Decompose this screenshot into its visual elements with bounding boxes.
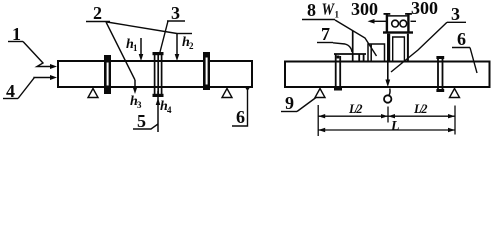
tower post right [405,14,412,34]
svg-text:2: 2 [189,41,194,51]
svg-text:1: 1 [335,10,340,20]
stand inner bracket [393,37,405,62]
svg-text:8: 8 [307,0,316,20]
leader 6 left [232,88,248,126]
dimension extension line middle [387,107,389,123]
label 3 left [171,3,180,23]
shaft left rotor body [58,61,252,87]
dimension extension line right [454,106,456,135]
measurement arrow h2 [175,34,192,62]
svg-text:3: 3 [451,4,460,24]
dimension line L [318,128,455,132]
dimension extension line left [317,105,319,136]
dimension 300 right text [411,0,438,18]
motor block [368,44,385,62]
label W1 [322,0,340,20]
leader 6 right underline [452,47,470,49]
leader 9 underline [281,111,297,113]
svg-text:L/2: L/2 [348,102,363,116]
disc 3 [203,52,210,90]
svg-text:L/2: L/2 [413,102,428,116]
disc 1 [104,55,111,94]
leader 3 right underline [447,21,466,23]
dimension 300 line right stub [411,20,417,22]
leader 7 [317,42,333,44]
tower pulley circle right [400,20,407,27]
leader 3 underline [167,20,185,22]
label 8 [307,0,316,20]
svg-text:L: L [390,119,400,134]
label 7 [321,24,330,44]
tower box top edge [388,15,407,17]
svg-text:W: W [322,0,336,19]
bearing pedestal 2 [436,56,444,92]
label 9 [285,93,294,113]
svg-text:6: 6 [236,107,245,127]
label 2 [93,3,102,23]
leader 4 underline [3,98,18,100]
svg-text:6: 6 [457,29,466,49]
leader 5 underline [133,124,158,129]
svg-text:4: 4 [167,105,172,115]
leader 3 diagonal [160,21,168,52]
measurement arrow h3 [133,80,138,94]
leader 8 underline [302,19,335,21]
support triangle A [88,89,98,98]
leader 6 right diagonal [470,48,477,74]
measurement arrow h4 [156,91,161,132]
leader 4 diagonal [18,78,51,99]
shaft right rotor body [285,62,490,88]
bearing pedestal 1 [334,54,342,91]
leader 8 diagonal [335,20,377,56]
support triangle D [450,89,460,98]
disc 2 [153,52,164,97]
svg-text:3: 3 [171,3,180,23]
dimension line L/2 L/2 [318,114,455,118]
leader 2 line B across shaft [106,22,135,80]
pole on platform [352,31,354,62]
leader 1 underline [8,41,23,43]
leader 1 diagonal [23,42,51,67]
label 5 [137,111,146,131]
tower post left [384,14,391,34]
support triangle B [222,89,232,98]
label 4 [6,81,15,101]
dimension 300 left text [351,0,378,19]
svg-text:7: 7 [321,24,330,44]
label 6 left [236,107,245,127]
svg-text:300: 300 [411,0,438,18]
leader 2 line A to h2 stem [107,22,177,34]
svg-text:2: 2 [93,3,102,23]
svg-text:9: 9 [285,93,294,113]
arrow 4 head [50,75,57,80]
stand outer walls [389,34,408,62]
svg-text:300: 300 [351,0,378,19]
tower pulley circle left [392,20,399,27]
label 1 [12,24,21,44]
label h1 [126,37,138,53]
support triangle C [315,89,325,98]
label h3 [130,94,142,110]
label h4 [160,99,172,115]
dimension 300 line left [368,19,388,24]
dimension text L [390,119,400,134]
force line W with arrow [385,34,390,87]
label 3 right [451,4,460,24]
label h2 [182,35,194,51]
svg-text:3: 3 [137,100,142,110]
dimension text L/2 right [413,102,428,116]
arrow 1 head [50,64,57,69]
label 6 right [457,29,466,49]
svg-text:5: 5 [137,111,146,131]
hanging weight circle [384,89,391,103]
leader 6 junction dot [246,86,250,90]
svg-text:1: 1 [133,43,138,53]
leader 3 right diagonal [391,22,447,72]
leader 9 diagonal [297,98,316,112]
platform plate 7 [334,53,366,55]
leader 2 underline [86,21,110,23]
dimension text L/2 left [348,102,363,116]
tower flange [383,31,413,33]
measurement arrow h1 [139,38,144,61]
platform posts [359,54,363,62]
